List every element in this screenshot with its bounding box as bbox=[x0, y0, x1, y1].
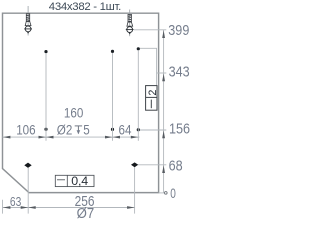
arrow 68 bbox=[162, 165, 165, 173]
arrow 399 bbox=[162, 30, 165, 38]
arrow at C2 bbox=[127, 206, 135, 209]
screw S2 cone bbox=[127, 22, 133, 26]
hole B3 dot bbox=[137, 128, 140, 131]
plate outline bbox=[3, 13, 159, 192]
ordinate ladder line bbox=[163, 30, 165, 193]
dim line bottom (63 / 256) bbox=[3, 207, 135, 209]
screw S1 shank bbox=[26, 14, 29, 22]
tolerance frame 0,4 bbox=[55, 175, 94, 186]
ext line hole col 3 bbox=[137, 50, 139, 141]
svg-text:0: 0 bbox=[170, 185, 176, 201]
svg-text:64: 64 bbox=[119, 121, 132, 137]
screw S1 cone bbox=[25, 21, 31, 25]
ext line bottom left bbox=[2, 200, 4, 214]
screw S1 tip bbox=[27, 32, 29, 34]
svg-text:63: 63 bbox=[10, 196, 21, 209]
screw S2 head bbox=[127, 27, 133, 33]
ext line hole col 2 bbox=[112, 53, 114, 141]
svg-text:106: 106 bbox=[16, 121, 35, 137]
arrow at col3 bbox=[131, 136, 139, 139]
screw S1 head bbox=[25, 26, 31, 32]
ext line hole col 1 bbox=[45, 53, 47, 141]
arrows X at col1 bbox=[39, 136, 47, 139]
dim line row (106 / 160 / 64) bbox=[3, 136, 140, 138]
svg-text:0,4: 0,4 bbox=[71, 174, 88, 188]
origin marker 0 bbox=[165, 192, 168, 195]
svg-text:434x382 - 1шт.: 434x382 - 1шт. bbox=[49, 1, 121, 13]
origin tick bbox=[159, 192, 165, 194]
svg-text:2: 2 bbox=[147, 90, 159, 96]
svg-text:Ø2: Ø2 bbox=[57, 121, 73, 137]
hole C1 diamond bbox=[24, 163, 31, 168]
svg-text:156: 156 bbox=[169, 121, 190, 137]
hole A1 dot bbox=[44, 50, 47, 53]
ext line hole C2 bbox=[134, 167, 136, 214]
svg-text:399: 399 bbox=[168, 22, 189, 38]
tick 156 bbox=[140, 129, 166, 131]
hole B2 dot bbox=[111, 128, 114, 131]
hole A3 dot bbox=[137, 47, 140, 50]
arrow 156 bbox=[162, 131, 165, 139]
svg-text:160: 160 bbox=[64, 105, 83, 121]
arrow 343 bbox=[162, 74, 165, 82]
hole B1 dot bbox=[44, 128, 47, 131]
screw S2 tip bbox=[129, 32, 131, 34]
svg-text:Ø7: Ø7 bbox=[77, 204, 95, 221]
tick 399 leader bbox=[134, 29, 166, 31]
svg-text:5: 5 bbox=[83, 121, 89, 137]
tick 68 bbox=[138, 164, 167, 166]
screw S2 centerline bbox=[129, 10, 131, 37]
screw S2 shank bbox=[128, 14, 131, 22]
arrows X at C1 bbox=[21, 206, 29, 209]
arrow at left bbox=[3, 206, 10, 209]
arrows X at col2 bbox=[105, 136, 113, 139]
hole A2 dot bbox=[111, 50, 114, 53]
tick 343 leader (jog from hole A3) bbox=[140, 48, 157, 85]
svg-text:343: 343 bbox=[169, 64, 190, 80]
tolerance frame 2 (vertical) bbox=[146, 86, 157, 111]
svg-text:68: 68 bbox=[169, 158, 183, 174]
hole C2 diamond bbox=[131, 162, 138, 167]
screw S1 centerline bbox=[27, 6, 29, 36]
ext line hole C1 bbox=[27, 168, 29, 214]
arrow at left edge bbox=[3, 136, 10, 139]
